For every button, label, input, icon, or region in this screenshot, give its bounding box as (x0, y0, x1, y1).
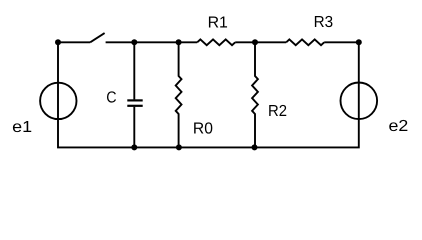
svg-text:C: C (106, 89, 116, 106)
svg-text:R0: R0 (193, 120, 213, 137)
svg-text:e2: e2 (389, 118, 409, 135)
svg-text:R1: R1 (208, 14, 228, 31)
svg-text:R3: R3 (314, 14, 334, 31)
svg-text:R2: R2 (268, 103, 287, 120)
svg-text:e1: e1 (12, 119, 32, 136)
